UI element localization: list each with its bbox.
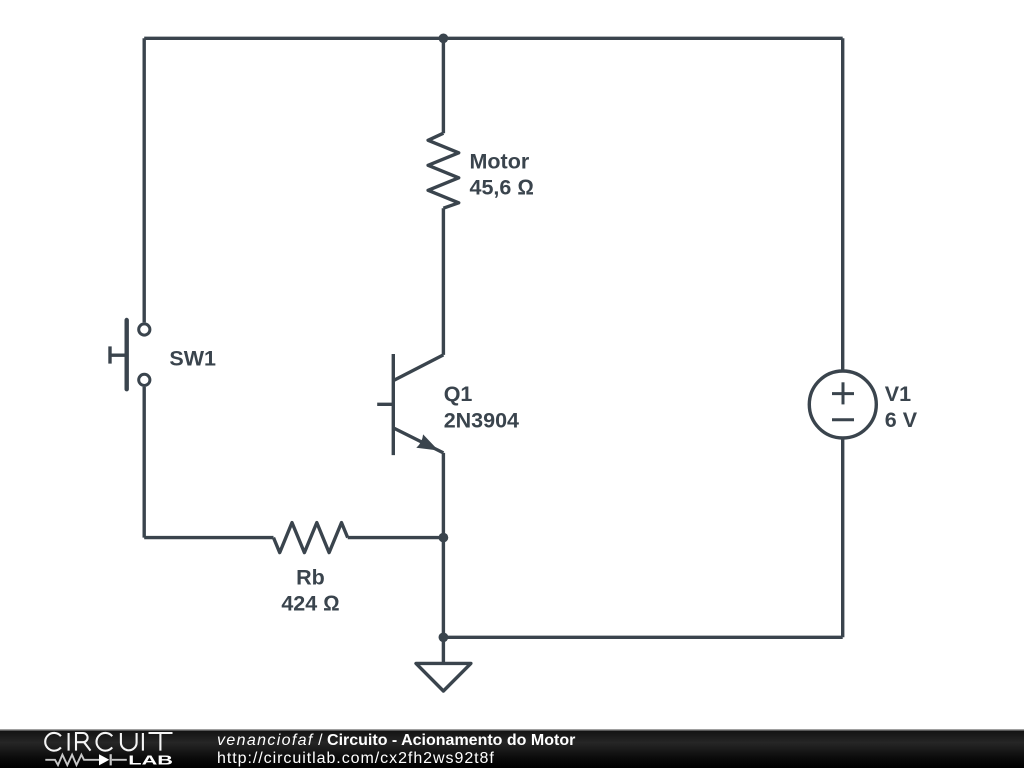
svg-text:SW1: SW1 [169, 346, 216, 370]
voltage source V1 [809, 371, 876, 438]
wire Rb left lead [144, 536, 273, 539]
resistor Motor [428, 133, 459, 208]
switch SW1 [110, 320, 150, 389]
svg-text:Q1: Q1 [444, 382, 473, 406]
wire center top [442, 38, 445, 133]
wire emitter [442, 453, 445, 538]
svg-text:424 Ω: 424 Ω [281, 591, 339, 615]
ground [416, 637, 471, 691]
svg-text:Motor: Motor [470, 150, 530, 174]
svg-text:6 V: 6 V [885, 408, 918, 432]
attribution text [217, 732, 575, 768]
svg-text:LAB: LAB [128, 753, 173, 768]
label Rb [281, 566, 339, 616]
wire emitter to ground node [442, 538, 445, 638]
svg-text:Rb: Rb [296, 566, 325, 590]
wire Rb to node [348, 536, 444, 539]
label Motor [470, 150, 534, 200]
node base junction [439, 533, 449, 543]
wire bottom rail [443, 636, 842, 639]
CircuitLab logo [0, 728, 200, 768]
transistor Q1 [377, 354, 443, 455]
node ground junction [439, 632, 449, 642]
wire right upper [841, 38, 844, 371]
wire left upper [142, 38, 145, 322]
label Q1 [444, 382, 519, 433]
svg-text:45,6 Ω: 45,6 Ω [470, 175, 534, 199]
resistor Rb [274, 523, 348, 553]
node top junction [439, 33, 449, 43]
svg-text:2N3904: 2N3904 [444, 409, 519, 433]
wire collector [442, 208, 445, 355]
label V1 [885, 382, 918, 432]
wire right lower [841, 438, 844, 637]
wire top rail [144, 37, 843, 40]
svg-text:V1: V1 [885, 382, 911, 406]
footer bar [0, 729, 1024, 768]
wire left lower [142, 387, 145, 538]
